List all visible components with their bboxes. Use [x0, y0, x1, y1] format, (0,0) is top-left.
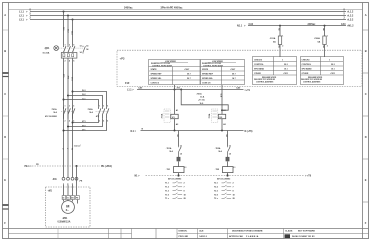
svg-text:SPEED SEL: SPEED SEL	[202, 78, 214, 80]
svg-text:5: 5	[107, 105, 108, 107]
wire group1 mid	[178, 162, 180, 167]
contactor K01M linkage	[61, 111, 74, 113]
border frame inner right	[362, 3, 364, 239]
FUSE F01A	[270, 25, 284, 57]
fuse F02A body	[323, 36, 326, 45]
wire labels 1L1 2L2 3L3	[62, 27, 73, 35]
node return dots	[63, 122, 74, 132]
svg-text:CONTROL ADDRESS: CONTROL ADDRESS	[256, 80, 274, 83]
wire bus L3	[30, 19, 346, 21]
node N return junction 2	[221, 130, 223, 132]
motor enclosure dashed	[46, 187, 91, 227]
svg-text:L1: L1	[185, 167, 187, 169]
wire bus L1	[30, 11, 346, 13]
breaker Q01 pole numbers	[65, 44, 76, 62]
wire group1 low	[178, 173, 180, 176]
motor M01 circle	[62, 201, 75, 214]
wire drop phase3 upper	[72, 20, 74, 46]
svg-text:N.1 >: N.1 >	[131, 130, 137, 133]
wire group1 drop	[178, 131, 180, 147]
svg-text:-T01A: -T01A	[196, 93, 202, 96]
contactor K02M pole numbers	[99, 105, 108, 122]
svg-text:2: 2	[99, 120, 100, 122]
svg-text:B: B	[365, 49, 367, 53]
node CA0 junction 1	[174, 89, 176, 91]
border frame title strip top	[3, 228, 369, 230]
wire N return	[141, 130, 244, 132]
node branch dot L3	[72, 91, 74, 93]
svg-text:-T02A: -T02A	[215, 147, 221, 150]
wire return 2	[68, 119, 103, 127]
svg-text:CONTROL: CONTROL	[302, 64, 312, 66]
svg-text:240Vac: 240Vac	[124, 6, 133, 10]
svg-text:L3.1: L3.1	[19, 18, 24, 21]
coil K02M body	[218, 114, 225, 118]
svg-text:N1 >: N1 >	[135, 174, 141, 177]
zone letters right	[365, 13, 367, 225]
svg-text:6: 6	[73, 120, 74, 122]
wire coil2 to N	[221, 119, 223, 131]
node N return junction 1	[174, 130, 176, 132]
svg-text:13: 13	[229, 146, 231, 148]
svg-text:OTHER: OTHER	[254, 73, 261, 75]
svg-text:10-16A: 10-16A	[42, 52, 49, 55]
svg-text:3~: 3~	[66, 208, 70, 212]
svg-text:CONTROL: CONTROL	[254, 64, 264, 66]
wire CA0	[137, 89, 244, 91]
svg-text:ATV-18-U09M2: ATV-18-U09M2	[217, 178, 231, 181]
BREAKER Q01	[42, 44, 89, 62]
svg-text:3Ph+N+PE 400Vac: 3Ph+N+PE 400Vac	[161, 6, 183, 10]
title block logo	[285, 234, 291, 238]
wire F02 upper	[324, 26, 326, 36]
wire coil2 vertical	[221, 85, 223, 114]
svg-text:>N1.2: >N1.2	[347, 25, 354, 28]
svg-text:1.5mm²: 1.5mm²	[74, 144, 81, 147]
svg-text:-F01A: -F01A	[270, 37, 276, 40]
svg-text:0.55kW/1.5A: 0.55kW/1.5A	[58, 220, 71, 223]
breaker Q01 aux contact	[83, 46, 85, 54]
node branch dot L1	[63, 99, 65, 101]
breaker Q01 aux numbers	[80, 45, 90, 54]
svg-text:DISEGN.: DISEGN.	[179, 231, 188, 233]
svg-text:2: 2	[282, 46, 283, 48]
zone ticks left	[3, 30, 9, 209]
svg-text:-T02A: -T02A	[208, 113, 211, 119]
wire drop phase2 upper	[67, 16, 69, 46]
INVERTER GROUP 1	[166, 131, 187, 181]
wire drop phase1 upper	[63, 12, 65, 46]
CONTACT CROSS-REF LIST 2	[214, 183, 236, 201]
svg-text:>+T1: >+T1	[245, 89, 251, 92]
wire branch bottom returns	[64, 119, 107, 131]
node PE junction	[76, 165, 78, 167]
svg-text:PROJ.NR: PROJ.NR	[179, 236, 189, 238]
svg-text:EDY SOFTWARE: EDY SOFTWARE	[298, 230, 315, 233]
node tap L1	[63, 11, 65, 13]
bus tap junction dots	[63, 11, 74, 21]
svg-text:13: 13	[180, 146, 182, 148]
wire return 3	[64, 119, 107, 131]
svg-text:D: D	[365, 135, 367, 139]
CONTACT CROSS-REF LIST 1	[165, 183, 187, 201]
svg-text:CA0: CA0	[249, 23, 254, 26]
breaker Q01 linkage dashed	[59, 47, 83, 49]
svg-text:OTHER: OTHER	[302, 73, 309, 75]
svg-text:+P3: +P3	[120, 57, 125, 61]
wire reference text	[196, 93, 205, 102]
coil K02M label box dashed	[212, 109, 218, 122]
terminal numbers	[63, 181, 83, 186]
svg-text:A: A	[4, 13, 6, 17]
svg-text:>L3.2: >L3.2	[347, 18, 354, 21]
svg-text:CHECK0: CHECK0	[302, 60, 311, 62]
wire PE drop	[76, 166, 78, 196]
svg-text:N1: N1	[176, 135, 178, 137]
wire group2 low	[227, 173, 229, 176]
svg-text:L2.1: L2.1	[19, 14, 24, 17]
svg-text:-T01A: -T01A	[51, 108, 57, 111]
boundary dashed line	[146, 175, 304, 177]
svg-text:SPEED REF: SPEED REF	[202, 74, 214, 76]
node L1 left label	[19, 10, 316, 28]
svg-text:-M01: -M01	[62, 217, 68, 220]
svg-text:>L2.2: >L2.2	[347, 14, 354, 17]
svg-text:6A: 6A	[273, 40, 276, 43]
inverter T01 body	[174, 167, 185, 173]
svg-text:N2: N2	[225, 135, 227, 137]
svg-text:N1.1: N1.1	[237, 25, 243, 28]
node N tap F02	[324, 25, 326, 27]
border frame inner top	[9, 9, 363, 11]
svg-text:CA0: CA0	[341, 23, 346, 26]
svg-text:D: D	[4, 135, 6, 139]
contactor K01M pole numbers	[65, 105, 75, 122]
wire return labels	[82, 121, 86, 131]
svg-text:240Vac: 240Vac	[308, 23, 317, 26]
svg-text:-F02A: -F02A	[314, 37, 320, 40]
svg-text:STATE: STATE	[151, 68, 158, 71]
svg-text:L1: L1	[234, 167, 236, 169]
breaker Q01 rotary actuator	[54, 46, 59, 51]
svg-text:CHECK0: CHECK0	[254, 60, 263, 62]
motor terminal boxes	[62, 196, 79, 200]
contactor K01M labels	[45, 108, 58, 118]
wire return 1	[73, 119, 99, 123]
svg-text:STATE: STATE	[202, 68, 209, 71]
wire branch labels	[82, 90, 86, 100]
title block texts row1	[179, 230, 316, 233]
contactor K02M linkage	[96, 111, 109, 113]
svg-text:3: 3	[69, 105, 70, 107]
svg-text:ALE: ALE	[199, 230, 204, 233]
svg-text:B: B	[4, 49, 6, 53]
wire labels 2T1 4T2 6T3	[62, 74, 73, 81]
svg-text:V1: V1	[67, 198, 69, 200]
BYPASS BRANCH	[63, 91, 74, 101]
node right end labels	[341, 10, 354, 28]
svg-text:L1.1 >: L1.1 >	[127, 89, 134, 92]
contact T01A aux	[179, 146, 182, 157]
node tap L3	[72, 19, 74, 21]
COIL K02M	[208, 85, 226, 131]
svg-text:+M1: +M1	[48, 191, 53, 193]
CONTACTOR K01M contacts	[64, 107, 75, 119]
BUS LINES	[30, 12, 346, 26]
node group2 dashed junction	[226, 174, 228, 176]
svg-text:> +T6: > +T6	[305, 175, 312, 178]
svg-text:13.A: 13.A	[200, 96, 205, 99]
svg-text:F1F: F1F	[125, 81, 130, 85]
zone letters left	[4, 13, 6, 225]
svg-text:1: 1	[282, 36, 283, 38]
svg-text:A: A	[365, 13, 367, 17]
svg-text:CONTROL WORD ADDR: CONTROL WORD ADDR	[152, 64, 173, 67]
svg-text:6A: 6A	[318, 40, 321, 43]
wire coil1 vertical	[174, 85, 176, 114]
breaker Q01 thermal box	[61, 53, 77, 59]
motor feed wires	[64, 185, 78, 204]
svg-text:>L1.2: >L1.2	[347, 10, 354, 13]
svg-text:-T01A: -T01A	[161, 113, 164, 119]
contactor K02M labels	[87, 108, 100, 118]
wire F01 lower	[279, 45, 281, 58]
wire marks	[62, 148, 73, 150]
connector box group1	[177, 157, 180, 161]
svg-text:6: 6	[107, 120, 108, 122]
wire branch top 1	[73, 92, 107, 107]
svg-text:-T01A: -T01A	[166, 147, 172, 150]
wire branch top 2	[68, 96, 103, 107]
node group1 dashed junction	[177, 174, 179, 176]
svg-text:1: 1	[99, 105, 100, 107]
contact T02A aux	[228, 146, 231, 157]
svg-text:APPROV.CAD: APPROV.CAD	[229, 235, 243, 238]
node branch dot L2	[67, 95, 69, 97]
title block	[177, 229, 369, 239]
svg-text:CLASS:: CLASS:	[285, 230, 293, 233]
TABLE T3 (release word)	[253, 57, 297, 85]
svg-text:ATV-18-U09M2: ATV-18-U09M2	[168, 178, 182, 181]
svg-text:4: 4	[69, 119, 70, 122]
svg-text:W1: W1	[71, 198, 74, 200]
svg-text:+T1 1A: +T1 1A	[198, 99, 205, 102]
coil K01M body	[171, 114, 178, 118]
revision table	[9, 229, 157, 239]
svg-text:3: 3	[103, 105, 104, 107]
svg-text:N (+T6): N (+T6)	[245, 130, 253, 133]
PHASE DROPS lower	[64, 58, 73, 177]
connector box group2	[226, 157, 229, 161]
svg-text:5: 5	[73, 105, 74, 107]
svg-text:1: 1	[327, 36, 328, 38]
svg-text:-X01: -X01	[52, 179, 57, 181]
svg-text:PE (+PE1): PE (+PE1)	[101, 165, 112, 168]
svg-text:-Q01: -Q01	[44, 47, 50, 50]
svg-text:5A1A1 1234567 191 E3: 5A1A1 1234567 191 E3	[292, 235, 315, 238]
node jog join	[221, 109, 223, 111]
wire group2 drop	[227, 131, 229, 147]
svg-text:SPEED REF: SPEED REF	[151, 74, 163, 76]
TABLE T1 (PLC low speed)	[149, 60, 201, 85]
wire drop phase1 lower	[63, 58, 65, 177]
COIL K01M	[161, 85, 179, 131]
svg-text:C: C	[365, 92, 367, 96]
wire coil jog	[181, 90, 228, 111]
svg-text:CONT.1/0: CONT.1/0	[202, 83, 211, 85]
svg-text:F L A B B I A: F L A B B I A	[246, 235, 259, 238]
breaker Q01 poles	[64, 46, 75, 53]
svg-text:CONT.1/0: CONT.1/0	[151, 83, 160, 85]
svg-text:W: W	[71, 148, 73, 150]
svg-text:DIAGRAMA TORTA/CONSARB: DIAGRAMA TORTA/CONSARB	[232, 230, 263, 233]
svg-text:U1: U1	[62, 198, 64, 200]
wire bus L2	[30, 15, 346, 17]
INVERTER GROUP 2	[215, 131, 236, 181]
node CA0 junction 2	[180, 89, 182, 91]
wire PE dashed	[32, 165, 100, 167]
wire branch top 3	[64, 100, 99, 107]
svg-text:CONTROL WORD ADDR: CONTROL WORD ADDR	[203, 64, 224, 67]
svg-text:C: C	[4, 92, 6, 96]
node tap L2	[67, 15, 69, 17]
svg-text:-T02A: -T02A	[87, 108, 93, 111]
svg-text:2: 2	[65, 120, 66, 122]
wire drop phase2 lower	[67, 58, 69, 177]
wire bus N	[248, 25, 346, 27]
PHASE DROPS	[64, 12, 73, 46]
svg-text:ATV-18-U09M2: ATV-18-U09M2	[45, 115, 57, 118]
wire coil1 to N	[174, 119, 176, 131]
coil K01M label box dashed	[164, 109, 170, 122]
svg-text:4: 4	[103, 119, 104, 122]
wire drop phase3 lower	[72, 58, 74, 177]
CONTACTOR K02M contacts	[99, 107, 109, 119]
wire group2 mid	[227, 162, 229, 167]
svg-text:SPD BAND: SPD BAND	[254, 68, 265, 71]
svg-text:L1.1: L1.1	[19, 10, 24, 13]
svg-text:CONTROL ADDRESS: CONTROL ADDRESS	[303, 80, 321, 83]
svg-text:SPEED SEL: SPEED SEL	[151, 78, 163, 80]
svg-text:14231.2: 14231.2	[199, 235, 207, 238]
inverter T02 body	[223, 167, 234, 173]
panel P3 dashed box	[117, 50, 362, 86]
fuse F01A body	[278, 36, 281, 45]
wire F01 upper	[279, 26, 281, 36]
border frame inner left	[8, 3, 10, 239]
TERMINALS X01	[62, 177, 78, 180]
TABLE T4 (release word 2)	[300, 57, 344, 85]
svg-text:PE.1 >: PE.1 >	[25, 165, 33, 168]
svg-text:1: 1	[65, 105, 66, 107]
svg-text:SPD BAND: SPD BAND	[302, 68, 313, 71]
svg-text:2: 2	[327, 46, 328, 48]
FUSE F02A	[314, 25, 328, 57]
title block texts row2	[179, 235, 316, 238]
TABLE T2 (PLC high speed)	[201, 60, 245, 85]
wire F02 lower	[324, 45, 326, 58]
node N tap F01	[279, 25, 281, 27]
zone ticks right	[363, 30, 369, 202]
